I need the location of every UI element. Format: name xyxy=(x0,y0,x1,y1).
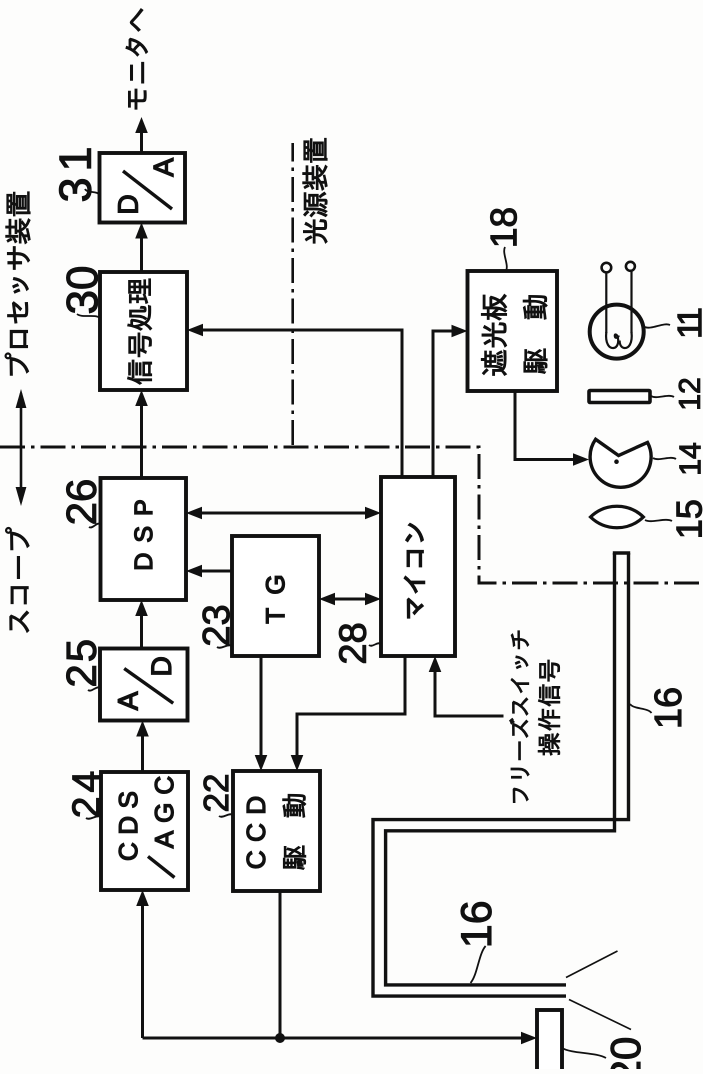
block shading-plate-drive 18 xyxy=(468,271,558,391)
wire A/D to DSP xyxy=(140,605,143,649)
boundary chain line scope/processor xyxy=(0,447,703,583)
boundary chain line processor/light-source xyxy=(291,143,294,445)
wire DSP to microcomputer xyxy=(191,512,377,515)
light guide 16 outer wall xyxy=(373,553,629,996)
text CDS xyxy=(119,792,137,859)
leader 26 xyxy=(89,523,101,527)
leader 11 xyxy=(645,324,670,327)
lamp 11 terminal lower xyxy=(626,262,635,271)
wire CCD-20 to CDS/AGC xyxy=(141,895,144,1038)
leader 18 xyxy=(504,247,507,271)
text CCD xyxy=(247,797,265,868)
leader 28 xyxy=(369,643,381,646)
lamp 11 bulb xyxy=(590,305,644,359)
leader 15 xyxy=(645,520,672,521)
text microcomputer xyxy=(404,524,424,618)
numeral 12 xyxy=(679,379,700,409)
block D/A 31 xyxy=(100,153,186,223)
aperture plate 12 xyxy=(589,391,650,403)
wire CCD-drive 22 to junction xyxy=(279,891,282,1038)
numeral 14 xyxy=(680,443,701,473)
text signal-processing xyxy=(128,279,152,384)
wire microcomputer to signal-processing xyxy=(192,330,403,477)
slash in A/D box xyxy=(124,669,173,704)
text shading-plate xyxy=(481,294,506,375)
numeral 18 xyxy=(490,209,516,246)
label A in A/D box xyxy=(118,692,137,711)
junction dot xyxy=(275,1033,285,1043)
block signal-processing 30 xyxy=(100,272,187,390)
leader 23 xyxy=(217,645,232,648)
text freeze-switch xyxy=(510,631,530,803)
slash in CDS/AGC box xyxy=(148,856,175,877)
wire signal-processing to D/A xyxy=(140,227,143,272)
numeral 11 xyxy=(678,309,701,337)
leader 30 xyxy=(77,314,100,318)
text operation-signal xyxy=(538,660,560,755)
text scope xyxy=(5,527,29,632)
numeral 31 xyxy=(59,149,91,201)
wire microcomputer to shading-plate-drive xyxy=(433,331,463,477)
wire DSP to signal-processing xyxy=(140,395,143,479)
lamp 11 filament xyxy=(606,332,632,348)
wire microcomputer to CCD-drive xyxy=(297,656,405,767)
text drive in shading-plate box xyxy=(523,295,547,373)
text light-source-unit xyxy=(303,138,327,243)
lens 15 xyxy=(591,506,644,527)
label D in D/A box xyxy=(118,196,137,213)
light ray from guide tip 1 xyxy=(566,951,618,978)
light guide 16 entrance cap xyxy=(613,551,630,554)
shading plate 14 pivot dot xyxy=(614,459,619,464)
light guide 16 inner wall xyxy=(386,553,615,985)
numeral 22 xyxy=(204,775,228,810)
slash in D/A box xyxy=(123,171,172,209)
label A in D/A box xyxy=(154,158,173,177)
leader 16a xyxy=(630,704,652,713)
numeral 16 xyxy=(654,689,681,727)
leader 22 xyxy=(219,814,233,817)
wire CDS/AGC to A/D xyxy=(141,725,144,772)
block TG 23 xyxy=(232,536,319,656)
numeral 20 xyxy=(611,1038,641,1074)
leader 14 xyxy=(653,458,676,459)
leader 12 xyxy=(651,396,674,397)
numeral 28 xyxy=(339,624,366,663)
numeral 26 xyxy=(66,481,96,524)
leader 31 xyxy=(85,189,100,195)
wire shading-plate-drive to plate 14 xyxy=(515,391,585,460)
numeral 16 xyxy=(461,902,491,945)
block microcomputer 28 xyxy=(381,477,455,656)
leader 24 xyxy=(86,816,101,819)
text drive in CCD-drive box xyxy=(283,794,306,869)
block A/D 25 xyxy=(100,649,188,721)
numeral 25 xyxy=(66,641,96,686)
numeral 15 xyxy=(677,501,702,537)
block CDS/AGC 24 xyxy=(101,772,188,890)
text TG xyxy=(266,576,284,623)
numeral 23 xyxy=(203,606,230,645)
light ray from guide tip 2 xyxy=(569,1000,631,1030)
wire D/A to monitor xyxy=(140,122,143,154)
wire TG to CCD-drive xyxy=(260,656,263,767)
wire TG to DSP xyxy=(191,570,233,573)
lamp 11 lead upper xyxy=(605,273,607,334)
shading plate 14 (notched disc) xyxy=(590,439,651,487)
block CCD-drive 22 xyxy=(233,771,320,891)
wire freeze-switch input xyxy=(435,661,504,717)
label D in A/D box xyxy=(152,658,171,675)
wire trunk from junction down to CCD 20 xyxy=(143,1037,534,1040)
lamp 11 terminal upper xyxy=(602,263,612,273)
numeral 30 xyxy=(67,267,98,313)
text to-monitor xyxy=(126,9,148,109)
leader 20 xyxy=(562,1048,606,1058)
leader 16b xyxy=(471,946,486,983)
text processor-unit xyxy=(5,192,30,375)
arrowhead into CCD 20 xyxy=(521,1032,537,1045)
block CCD 20 at scope tip xyxy=(537,1010,562,1073)
text AGC xyxy=(155,777,173,848)
lamp 11 lead lower xyxy=(630,271,632,333)
leader 25 xyxy=(88,687,100,690)
block DSP 26 xyxy=(101,478,187,600)
text DSP xyxy=(135,501,153,569)
numeral 24 xyxy=(72,772,99,816)
wire TG to microcomputer xyxy=(324,598,377,601)
double arrow scope-processor xyxy=(20,394,23,502)
